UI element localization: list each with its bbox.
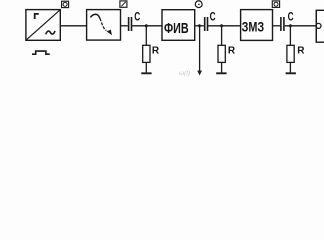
svg-text:R: R [152, 46, 160, 57]
svg-text:R: R [297, 46, 305, 57]
svg-text:C: C [134, 11, 140, 23]
svg-text:C: C [288, 11, 294, 23]
svg-text:ЗМЗ: ЗМЗ [242, 19, 265, 34]
svg-text:ω(t): ω(t) [179, 70, 190, 77]
svg-text:C: C [210, 11, 216, 23]
svg-text:R: R [228, 46, 236, 57]
svg-text:ФИВ: ФИВ [164, 21, 189, 37]
